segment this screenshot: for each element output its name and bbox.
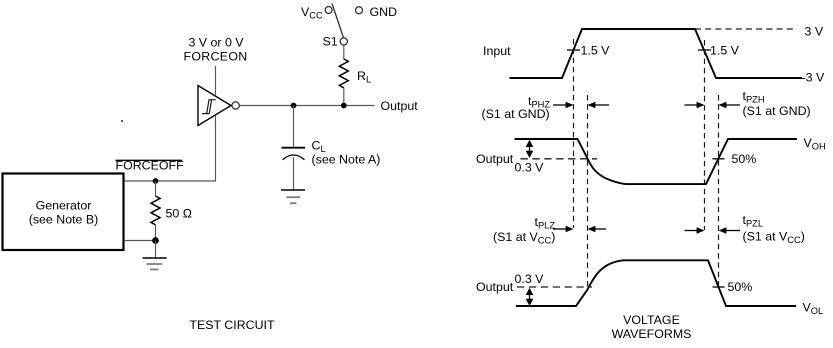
tPHZ left arrow xyxy=(588,102,610,109)
ground (below CL) xyxy=(281,190,305,203)
tPLZ left arrow xyxy=(588,226,607,233)
svg-text:3 V or 0 V: 3 V or 0 V xyxy=(188,36,244,50)
50% tick (VOL) xyxy=(713,286,725,288)
svg-text:S1: S1 xyxy=(323,35,338,49)
0.3V dashed line (VOL) xyxy=(517,286,592,288)
GND terminal xyxy=(356,5,398,19)
50% tick (VOH) xyxy=(713,158,725,160)
svg-text:(S1 at GND): (S1 at GND) xyxy=(482,107,550,121)
svg-text:FORCEON: FORCEON xyxy=(183,50,247,64)
1.5V tick (rising) xyxy=(567,49,580,51)
svg-text:Output: Output xyxy=(476,280,514,294)
svg-text:50%: 50% xyxy=(728,280,753,294)
0.3V dashed line (VOH) xyxy=(521,158,598,160)
FORCEOFF label xyxy=(116,159,185,173)
tPZH left arrow xyxy=(719,102,741,109)
svg-text:50 Ω: 50 Ω xyxy=(166,207,193,221)
junction dot (FORCEOFF node) xyxy=(153,178,159,184)
svg-text:tPZL: tPZL xyxy=(743,213,764,229)
svg-text:1.5 V: 1.5 V xyxy=(581,44,611,58)
svg-text:Input: Input xyxy=(483,44,511,58)
0.3V measure arrow (VOH) xyxy=(526,140,534,158)
svg-text:(S1 at VCC): (S1 at VCC) xyxy=(493,230,555,246)
wire node to 50ohm xyxy=(155,181,157,196)
tPHZ right arrow xyxy=(553,102,574,109)
svg-text:WAVEFORMS: WAVEFORMS xyxy=(612,327,692,341)
svg-text:Output: Output xyxy=(381,99,419,113)
output wire xyxy=(239,105,374,107)
svg-text:Generator: Generator xyxy=(36,199,92,213)
generator box xyxy=(3,174,124,251)
tPLZ right arrow xyxy=(553,226,574,233)
resistor 50 ohm xyxy=(151,196,192,225)
svg-text:(see Note A): (see Note A) xyxy=(312,153,381,167)
svg-text:0.3 V: 0.3 V xyxy=(515,161,545,175)
svg-text:(see Note B): (see Note B) xyxy=(29,213,99,227)
svg-text:VCC: VCC xyxy=(301,5,323,21)
junction dot (RL node) xyxy=(341,103,347,109)
VCC terminal xyxy=(301,5,332,21)
input waveform xyxy=(510,29,803,78)
resistor RL xyxy=(339,59,371,88)
inverter bubble xyxy=(232,102,239,109)
caption VOLTAGE WAVEFORMS xyxy=(612,313,692,341)
svg-text:tPZH: tPZH xyxy=(743,89,765,105)
output VOH waveform xyxy=(515,139,798,184)
wire CL to ground xyxy=(293,157,295,190)
svg-text:(S1 at GND): (S1 at GND) xyxy=(743,104,811,118)
tPZL right arrow xyxy=(685,227,705,234)
svg-text:TEST CIRCUIT: TEST CIRCUIT xyxy=(189,318,275,332)
svg-text:VOL: VOL xyxy=(803,301,824,317)
1.5V tick (falling) xyxy=(698,49,711,51)
junction dot (ground node) xyxy=(152,237,159,244)
switch S1 xyxy=(323,4,348,49)
wire S1 to RL xyxy=(343,45,345,59)
FORCEON label xyxy=(183,36,247,64)
FORCEOFF wire (horizontal) xyxy=(124,180,216,182)
dashed vertical (output ZH crossing) xyxy=(718,95,720,287)
svg-text:0.3 V: 0.3 V xyxy=(515,272,545,286)
tPZH right arrow xyxy=(685,102,705,109)
wire 50ohm to ground node xyxy=(155,225,157,241)
svg-text:RL: RL xyxy=(357,69,371,85)
svg-text:-3 V: -3 V xyxy=(802,71,825,85)
svg-text:Output: Output xyxy=(476,152,514,166)
3V dashed level line xyxy=(695,28,793,30)
0.3V measure arrow (VOL) xyxy=(526,288,534,306)
ground (below 50 ohm) xyxy=(143,241,167,270)
tPZL left arrow xyxy=(719,227,741,234)
svg-text:GND: GND xyxy=(370,5,398,19)
svg-text:50%: 50% xyxy=(732,152,757,166)
output VOL waveform xyxy=(516,260,796,306)
stray dot xyxy=(121,120,123,122)
FORCEOFF wire (triangle bottom to node) xyxy=(215,115,217,181)
dashed vertical (input fall crossing) xyxy=(704,40,706,230)
dashed vertical (output HZ crossing) xyxy=(587,95,589,287)
junction dot (CL node) xyxy=(291,103,297,109)
capacitor CL xyxy=(282,106,381,167)
svg-text:(S1 at VCC): (S1 at VCC) xyxy=(743,230,805,246)
svg-text:VOLTAGE: VOLTAGE xyxy=(623,313,680,327)
svg-text:VOH: VOH xyxy=(804,136,826,152)
svg-text:1.5 V: 1.5 V xyxy=(710,44,740,58)
svg-text:3 V: 3 V xyxy=(805,25,824,39)
svg-text:tPLZ: tPLZ xyxy=(535,215,556,231)
dashed vertical (input rise crossing) xyxy=(573,39,575,228)
hysteresis symbol xyxy=(202,100,216,114)
FORCEON wire xyxy=(215,66,217,96)
wire RL to output node xyxy=(343,88,345,106)
op-amp U1 (schmitt buffer) triangle xyxy=(198,86,239,126)
wire generator bottom to node xyxy=(124,240,156,242)
